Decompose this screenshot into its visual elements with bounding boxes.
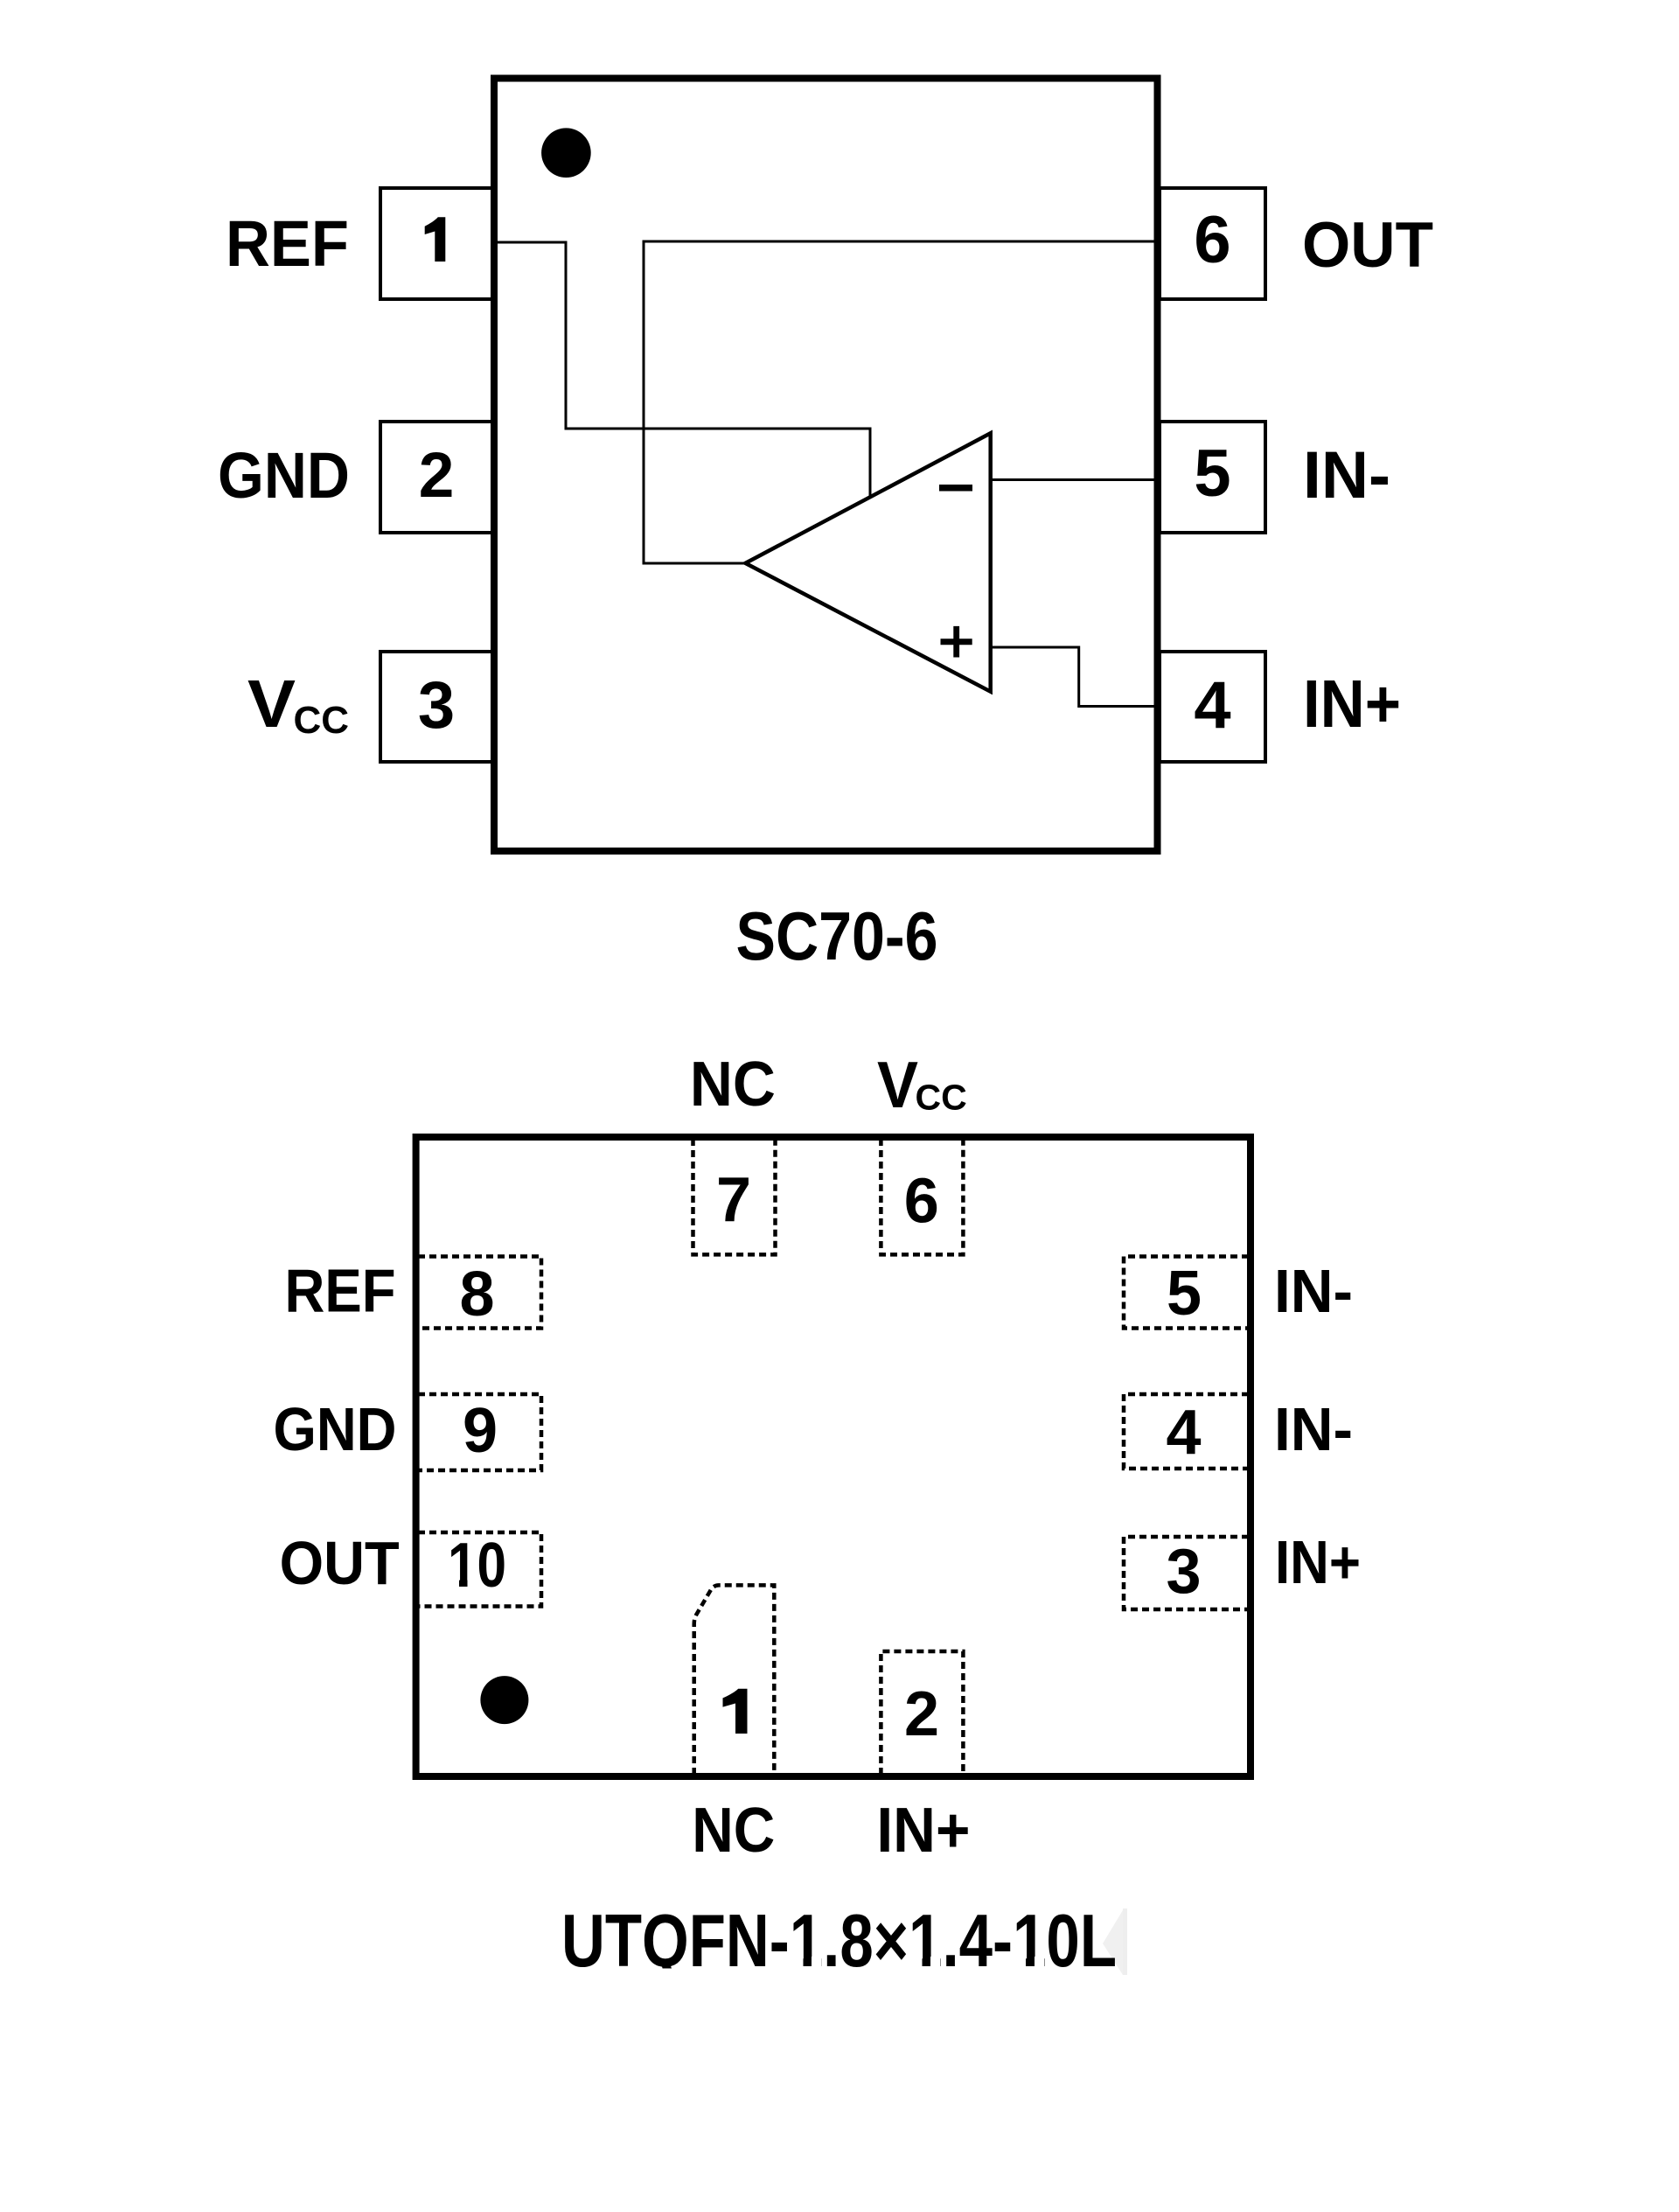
pin 1 number UTQFN bbox=[723, 1689, 748, 1734]
pin 6 pad (dashed) bbox=[881, 1139, 963, 1254]
svg-text:REF: REF bbox=[226, 207, 349, 280]
svg-text:5: 5 bbox=[1194, 436, 1230, 511]
wire IN- pin 5 to comparator inverting input bbox=[989, 478, 1160, 481]
svg-text:NC: NC bbox=[690, 1050, 776, 1120]
pin 3 pad (dashed) bbox=[1124, 1537, 1249, 1609]
svg-text:CC: CC bbox=[294, 699, 350, 742]
pin 4 pad (dashed) bbox=[1124, 1394, 1249, 1469]
pin 2 pad (dashed) bbox=[881, 1651, 963, 1775]
svg-text:IN-: IN- bbox=[1274, 1395, 1353, 1463]
svg-text:OUT: OUT bbox=[1302, 210, 1433, 281]
pin 6 box bbox=[1160, 188, 1265, 299]
svg-text:CC: CC bbox=[916, 1078, 967, 1118]
svg-text:2: 2 bbox=[904, 1679, 939, 1749]
pin 1 box bbox=[380, 188, 496, 299]
wire REF pin 1 to comparator top edge bbox=[492, 242, 870, 499]
pin 3 box bbox=[380, 652, 496, 762]
svg-text:IN-: IN- bbox=[1274, 1257, 1353, 1325]
svg-text:SC70-6: SC70-6 bbox=[736, 897, 938, 974]
svg-text:V: V bbox=[877, 1048, 918, 1121]
svg-text:IN+: IN+ bbox=[1275, 1528, 1361, 1596]
svg-text:7: 7 bbox=[716, 1165, 751, 1235]
svg-text:3: 3 bbox=[1166, 1537, 1201, 1607]
pin 5 pad (dashed) bbox=[1124, 1257, 1249, 1329]
pin 4 box bbox=[1160, 652, 1265, 762]
svg-text:GND: GND bbox=[274, 1395, 397, 1463]
svg-text:NC: NC bbox=[692, 1796, 775, 1866]
pin 7 pad (dashed) bbox=[693, 1139, 776, 1254]
pin 9 pad (dashed) bbox=[418, 1394, 541, 1470]
svg-text:GND: GND bbox=[218, 439, 350, 512]
inverting input minus symbol bbox=[939, 485, 972, 492]
watermark ghost after title bbox=[1103, 1910, 1123, 1975]
pin 1 indicator dot UTQFN bbox=[480, 1676, 528, 1724]
svg-text:10: 10 bbox=[448, 1531, 506, 1601]
pin 1 indicator dot bbox=[541, 128, 591, 178]
svg-text:9: 9 bbox=[463, 1396, 498, 1466]
svg-text:5: 5 bbox=[1167, 1259, 1202, 1329]
IC package body SC70-6 bbox=[494, 79, 1158, 852]
IC package body UTQFN bbox=[416, 1137, 1251, 1776]
op-amp comparator triangle bbox=[745, 433, 990, 691]
pin 1 pad with chamfer (dashed) bbox=[694, 1585, 775, 1775]
pin 5 box bbox=[1160, 422, 1265, 533]
svg-text:4: 4 bbox=[1194, 668, 1230, 743]
svg-text:IN+: IN+ bbox=[1303, 666, 1401, 742]
wire OUT pin 6 to comparator output bbox=[644, 241, 1160, 563]
svg-text:IN-: IN- bbox=[1303, 438, 1390, 513]
svg-text:3: 3 bbox=[418, 668, 455, 743]
svg-text:2: 2 bbox=[419, 440, 455, 511]
svg-text:IN+: IN+ bbox=[876, 1796, 970, 1866]
svg-text:6: 6 bbox=[904, 1167, 939, 1237]
svg-text:REF: REF bbox=[285, 1257, 396, 1325]
svg-text:6: 6 bbox=[1194, 203, 1230, 277]
svg-text:8: 8 bbox=[459, 1260, 494, 1329]
svg-text:V: V bbox=[247, 666, 296, 742]
pin 1 number bbox=[425, 217, 446, 262]
non-inverting input plus symbol bbox=[941, 626, 972, 658]
pin 2 box bbox=[380, 422, 496, 533]
pin 10 pad (dashed) bbox=[418, 1532, 541, 1607]
svg-text:OUT: OUT bbox=[280, 1529, 400, 1597]
wire IN+ pin 4 to comparator non-inverting input bbox=[989, 647, 1160, 707]
pin 8 pad (dashed) bbox=[418, 1257, 541, 1329]
svg-text:UTQFN-1.8×1.4-10L: UTQFN-1.8×1.4-10L bbox=[561, 1900, 1117, 1983]
svg-text:4: 4 bbox=[1166, 1398, 1201, 1468]
